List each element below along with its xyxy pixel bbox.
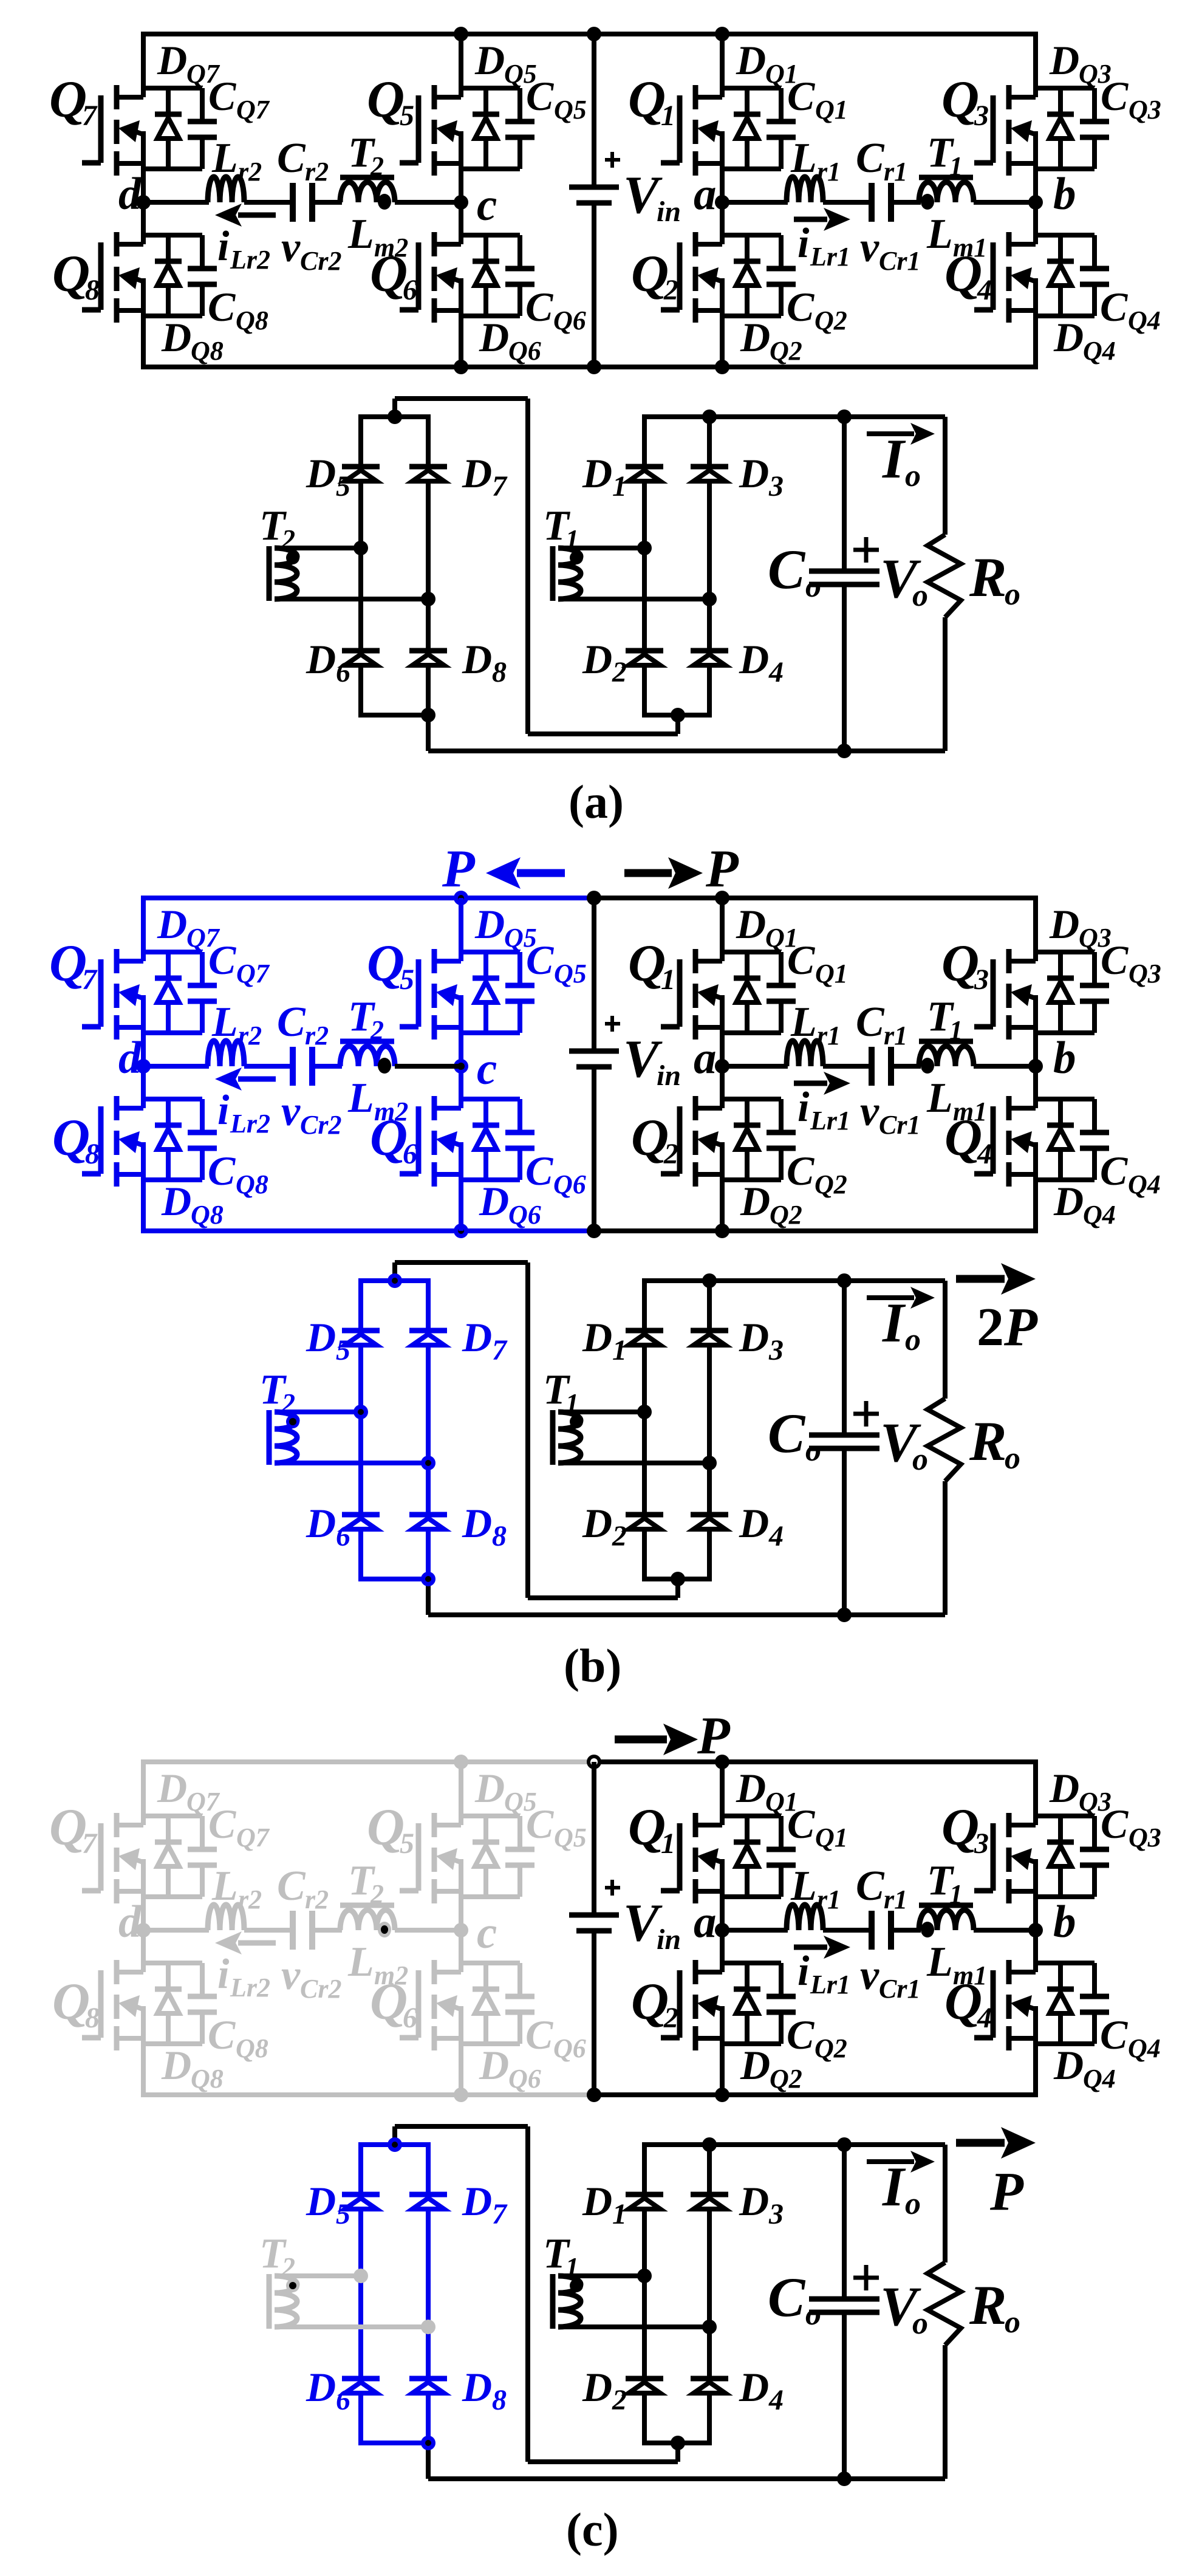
inductor L_r2: [208, 177, 244, 202]
svg-text:D: D: [462, 450, 492, 496]
junction: [837, 409, 852, 424]
wire node to Lr2: [143, 200, 209, 205]
wire: [459, 34, 463, 97]
wire: [143, 1030, 202, 1035]
node d: [136, 1923, 151, 1937]
body diode D_Q2: [745, 1099, 750, 1125]
wire: [891, 200, 921, 205]
svg-text:C: C: [208, 1801, 236, 1847]
wire: [1036, 1030, 1095, 1035]
capacitor C_Q6: [517, 1963, 522, 1994]
junction: [353, 1405, 368, 1419]
transformer T1 primary / magnetizing inductor L_m1: [919, 175, 973, 180]
junction: [837, 744, 852, 758]
node d: [136, 1059, 151, 1074]
rectifier diode D3: [691, 2192, 728, 2197]
wire: [141, 202, 146, 244]
svg-text:Q: Q: [628, 70, 666, 128]
svg-text:D: D: [739, 2178, 769, 2224]
node a: [715, 1923, 729, 1937]
MOSFET Q4: [1006, 1096, 1012, 1120]
wire: [143, 1814, 202, 1818]
svg-text:Q6: Q6: [508, 1200, 541, 1230]
wire: [459, 1930, 463, 1972]
junction: [388, 409, 402, 424]
wire: [459, 1066, 463, 1108]
junction: [671, 708, 685, 722]
MOSFET Q1: [693, 85, 698, 109]
right bridge legs: [642, 1281, 647, 1579]
junction: [702, 2320, 717, 2334]
wire: [141, 1762, 146, 1825]
wire: [1036, 166, 1095, 171]
svg-text:I: I: [882, 1292, 906, 1354]
svg-text:L: L: [790, 135, 817, 182]
svg-text:c: c: [477, 1908, 497, 1958]
wire: [720, 898, 725, 961]
svg-text:L: L: [211, 999, 238, 1046]
svg-text:1: 1: [661, 100, 675, 132]
capacitor C_Q3: [1092, 952, 1097, 983]
svg-text:L: L: [347, 1075, 374, 1122]
body diode D_Q5: [483, 952, 488, 978]
svg-text:P: P: [697, 1707, 731, 1766]
svg-text:D: D: [739, 450, 769, 496]
svg-text:o: o: [905, 2187, 921, 2221]
svg-text:v: v: [281, 1088, 301, 1135]
junction: [421, 2320, 435, 2334]
svg-text:2: 2: [612, 656, 627, 688]
svg-text:2: 2: [370, 1879, 384, 1909]
bottom rail (right half): [594, 2092, 1038, 2097]
junction: [587, 891, 601, 905]
svg-text:Q8: Q8: [236, 2033, 268, 2063]
junction: [454, 1755, 468, 1769]
top rail (right half): [594, 1759, 1038, 1764]
wire: [459, 202, 463, 244]
polarity dot: [286, 1415, 299, 1428]
body diode D_Q3: [1058, 88, 1063, 114]
bottom rail (right half): [594, 1228, 1038, 1233]
body diode D_Q7: [166, 952, 171, 978]
svg-text:m2: m2: [374, 233, 408, 262]
svg-text:5: 5: [336, 2198, 350, 2230]
wire Lm1 to node: [974, 1064, 1036, 1069]
polarity dot: [570, 2279, 583, 2292]
svg-text:6: 6: [336, 2384, 350, 2416]
transformer T2 secondary winding: [267, 1410, 272, 1465]
current arrow i_Lr1 (right): [794, 217, 827, 222]
svg-text:D: D: [462, 2364, 492, 2410]
svg-text:C: C: [526, 73, 554, 119]
svg-text:Q: Q: [631, 1972, 669, 2030]
svg-text:2: 2: [612, 1520, 627, 1552]
svg-text:o: o: [1005, 1441, 1020, 1476]
body diode D_Q1: [745, 952, 750, 978]
capacitor C_Q7: [200, 1816, 205, 1847]
MOSFET Q6: [432, 1960, 437, 1984]
svg-text:C: C: [768, 2266, 806, 2328]
rectifier diode D3: [691, 1328, 728, 1334]
svg-text:Q3: Q3: [1129, 1823, 1161, 1852]
inductor L_r1: [787, 1041, 823, 1066]
svg-text:D: D: [161, 1178, 191, 1224]
bottom rail (left half): [141, 365, 594, 369]
wire: [1036, 1894, 1095, 1899]
svg-text:4: 4: [977, 274, 992, 306]
wire: [722, 1177, 781, 1182]
svg-text:Q8: Q8: [236, 306, 268, 335]
wire Lm1 to node: [974, 1928, 1036, 1933]
wire: [312, 1928, 342, 1933]
svg-text:C: C: [768, 1402, 806, 1464]
MOSFET Q7: [114, 1813, 120, 1837]
rectifier diode D1: [626, 1328, 663, 1334]
svg-text:Q2: Q2: [814, 1170, 847, 1199]
svg-text:1: 1: [612, 470, 627, 502]
svg-text:Q6: Q6: [553, 306, 586, 335]
body diode D_Q2: [745, 1963, 750, 1989]
T2 secondary bottom lead: [275, 2324, 428, 2329]
transformer T2 primary / magnetizing inductor L_m2: [340, 175, 394, 180]
svg-text:D: D: [739, 1314, 769, 1360]
svg-text:7: 7: [82, 1828, 98, 1860]
svg-text:C: C: [208, 284, 236, 330]
T1 secondary top lead: [558, 2273, 644, 2278]
svg-text:o: o: [805, 2297, 821, 2332]
wire: [1036, 86, 1095, 91]
T1 secondary bottom lead: [558, 2324, 709, 2329]
wire: [461, 1177, 520, 1182]
svg-text:C: C: [787, 73, 815, 119]
svg-text:v: v: [281, 1952, 301, 1999]
transformer T1 secondary winding: [550, 2274, 556, 2329]
polarity dot: [921, 1922, 934, 1937]
body diode D_Q4: [1058, 1099, 1063, 1125]
svg-text:Q: Q: [52, 1108, 90, 1166]
current arrow i_Lr2 (left): [238, 213, 276, 218]
bottom rail (left half): [141, 2092, 594, 2097]
capacitor C_Q6: [517, 1099, 522, 1130]
capacitor C_Q8: [200, 235, 205, 266]
svg-text:a: a: [694, 1033, 717, 1083]
left bridge legs: [358, 2145, 363, 2443]
left bridge top bus: [358, 2142, 431, 2147]
svg-text:a: a: [694, 1897, 717, 1947]
svg-text:v: v: [860, 224, 879, 271]
svg-text:in: in: [657, 196, 681, 228]
inductor L_r2: [208, 1041, 244, 1066]
svg-text:D: D: [582, 636, 612, 682]
body diode D_Q1: [745, 1816, 750, 1842]
svg-text:5: 5: [336, 470, 350, 502]
svg-text:2P: 2P: [977, 1297, 1038, 1357]
svg-text:Lr1: Lr1: [810, 242, 850, 272]
svg-text:L: L: [211, 135, 238, 182]
capacitor C_Q2: [779, 1963, 784, 1994]
MOSFET Q3: [1006, 85, 1012, 109]
load resistor R_o: [943, 2145, 948, 2263]
svg-text:8: 8: [85, 1138, 100, 1170]
capacitor C_Q8: [200, 1099, 205, 1130]
series connection wire (bottom): [528, 2459, 678, 2464]
output return wire: [426, 715, 431, 751]
svg-text:D: D: [479, 1178, 509, 1224]
junction: [454, 27, 468, 41]
svg-text:R: R: [969, 1410, 1006, 1472]
capacitor C_Q3: [1092, 1816, 1097, 1847]
rectifier diode D6: [342, 1512, 380, 1518]
svg-text:Lr2: Lr2: [230, 1973, 270, 2002]
T2 secondary bottom lead: [275, 597, 428, 601]
current arrow i_Lr1 (right): [794, 1081, 827, 1086]
svg-text:P: P: [705, 840, 739, 899]
svg-text:Q: Q: [941, 934, 979, 992]
right bridge top bus: [642, 414, 945, 419]
wire: [720, 1762, 725, 1825]
polarity dot: [286, 551, 299, 564]
wire: [722, 166, 781, 171]
svg-text:Q3: Q3: [1129, 95, 1161, 125]
svg-text:C: C: [1100, 284, 1128, 330]
svg-text:L: L: [926, 211, 953, 258]
junction: [421, 592, 435, 606]
wire: [1033, 1930, 1038, 1972]
svg-text:C: C: [787, 1801, 815, 1847]
svg-text:Lr2: Lr2: [230, 245, 270, 275]
svg-text:Q: Q: [49, 1798, 87, 1856]
svg-text:D: D: [582, 1500, 612, 1546]
svg-text:Q: Q: [941, 70, 979, 128]
polarity dot: [570, 551, 583, 564]
svg-text:Q2: Q2: [770, 1200, 802, 1230]
body diode D_Q6: [483, 235, 488, 261]
junction: [637, 541, 652, 555]
wire: [143, 1097, 202, 1101]
svg-text:Q: Q: [367, 1798, 405, 1856]
wire: [459, 1762, 463, 1825]
wire: [461, 313, 520, 318]
junction: [421, 708, 435, 722]
svg-text:Q6: Q6: [553, 1170, 586, 1199]
svg-text:Q5: Q5: [554, 95, 587, 125]
right bridge bottom bus: [642, 1577, 712, 1581]
junction: [454, 891, 468, 905]
rectifier diode D8: [409, 2376, 447, 2382]
junction: [388, 1273, 402, 1288]
svg-text:Cr1: Cr1: [879, 1110, 920, 1140]
wire: [244, 200, 293, 205]
plus sign: [853, 2276, 879, 2280]
svg-text:Q: Q: [941, 1798, 979, 1856]
wire: [1033, 202, 1038, 244]
svg-text:Q3: Q3: [1129, 959, 1161, 988]
svg-text:C: C: [1101, 937, 1129, 983]
wire: [244, 1928, 293, 1933]
svg-text:D: D: [306, 1500, 336, 1546]
svg-text:Q6: Q6: [508, 336, 541, 366]
wire: [244, 1064, 293, 1069]
svg-text:Q1: Q1: [815, 95, 848, 125]
svg-text:D: D: [474, 37, 505, 83]
junction: [702, 592, 717, 606]
rectifier diode D6: [342, 648, 380, 654]
svg-text:i: i: [217, 1951, 230, 1998]
svg-text:8: 8: [85, 2002, 100, 2034]
svg-text:C: C: [277, 135, 306, 182]
transformer T1 secondary winding: [550, 1410, 556, 1465]
junction: [587, 1224, 601, 1238]
top rail (left half): [141, 32, 594, 36]
body diode D_Q6: [483, 1099, 488, 1125]
wire: [461, 1030, 520, 1035]
wire: [720, 34, 725, 97]
node b: [1028, 195, 1043, 210]
capacitor C_Q6: [517, 235, 522, 266]
inductor L_r1: [787, 1905, 823, 1930]
svg-text:2: 2: [663, 274, 678, 306]
wire: [461, 2041, 520, 2046]
wire: [1036, 233, 1095, 238]
svg-text:Q6: Q6: [508, 2064, 541, 2094]
rectifier diode D5: [342, 1328, 380, 1334]
bottom rail (left half): [141, 1228, 594, 1233]
wire: [722, 1961, 781, 1965]
body diode D_Q3: [1058, 952, 1063, 978]
node c: [454, 195, 468, 210]
svg-text:1: 1: [661, 1828, 675, 1860]
wire node to Lr1: [722, 1928, 788, 1933]
svg-text:1: 1: [949, 1015, 963, 1045]
wire: [823, 200, 872, 205]
svg-text:Q5: Q5: [554, 1823, 587, 1852]
wire: [141, 1066, 146, 1108]
plus sign: [605, 1886, 620, 1889]
inductor L_r2: [208, 1905, 244, 1930]
svg-text:Q: Q: [631, 1108, 669, 1166]
junction: [702, 409, 717, 424]
svg-text:a: a: [694, 169, 717, 219]
DC source V_in: [592, 1762, 596, 1913]
capacitor C_r1: [869, 1911, 875, 1950]
plus sign: [605, 1022, 620, 1026]
MOSFET Q5: [432, 85, 437, 109]
junction: [837, 1273, 852, 1288]
svg-text:D: D: [1053, 314, 1084, 360]
load resistor R_o: [943, 417, 948, 535]
svg-text:r2: r2: [238, 157, 262, 187]
svg-text:5: 5: [400, 964, 414, 996]
wire: [461, 86, 520, 91]
svg-text:Cr1: Cr1: [879, 1974, 920, 2004]
junction: [454, 1224, 468, 1238]
svg-text:r1: r1: [817, 1885, 841, 1914]
svg-text:Q: Q: [367, 934, 405, 992]
wire: [143, 233, 202, 238]
svg-text:(c): (c): [566, 2503, 619, 2556]
rectifier diode D8: [409, 1512, 447, 1518]
svg-text:Q: Q: [628, 934, 666, 992]
svg-text:o: o: [1005, 2305, 1020, 2340]
svg-text:2: 2: [612, 2384, 627, 2416]
top rail (left half): [141, 1759, 594, 1764]
plus sign: [605, 158, 620, 162]
svg-text:D: D: [474, 1765, 505, 1811]
rectifier diode D5: [342, 464, 380, 470]
svg-text:C: C: [525, 1148, 553, 1194]
svg-text:5: 5: [400, 100, 414, 132]
wire: [141, 34, 146, 97]
node c: [454, 1923, 468, 1937]
svg-text:I: I: [882, 428, 906, 490]
junction: [837, 2137, 852, 2152]
svg-text:Q4: Q4: [1128, 2033, 1161, 2063]
DC source V_in: [592, 34, 596, 185]
svg-text:L: L: [926, 1075, 953, 1122]
rectifier diode D5: [342, 2192, 380, 2197]
MOSFET Q1: [693, 1813, 698, 1837]
output power arrow P: [956, 2139, 1005, 2147]
svg-text:Q8: Q8: [191, 2064, 224, 2094]
wire node to Lr2: [143, 1064, 209, 1069]
svg-text:c: c: [477, 180, 497, 230]
svg-text:Q1: Q1: [815, 959, 848, 988]
svg-text:D: D: [306, 2364, 336, 2410]
body diode D_Q7: [166, 88, 171, 114]
rectifier diode D7: [409, 1328, 447, 1334]
body diode D_Q1: [745, 88, 750, 114]
body diode D_Q6: [483, 1963, 488, 1989]
transformer T2 primary / magnetizing inductor L_m2: [340, 1903, 394, 1908]
rectifier diode D7: [409, 464, 447, 470]
wire: [461, 1894, 520, 1899]
svg-text:2: 2: [663, 2002, 678, 2034]
wire: [722, 1097, 781, 1101]
svg-text:Q2: Q2: [814, 2033, 847, 2063]
svg-text:D: D: [582, 2364, 612, 2410]
output current arrow I_o: [867, 431, 914, 436]
left bridge bottom bus: [358, 2441, 431, 2445]
T1 secondary top lead: [558, 546, 644, 550]
wire: [141, 1930, 146, 1972]
wire: [722, 950, 781, 954]
svg-text:D: D: [479, 2042, 509, 2088]
svg-text:4: 4: [977, 2002, 992, 2034]
left bridge bottom bus: [358, 713, 431, 718]
junction: [421, 2436, 435, 2450]
MOSFET Q5: [432, 1813, 437, 1837]
node a: [715, 195, 729, 210]
MOSFET Q6: [432, 1096, 437, 1120]
svg-text:I: I: [882, 2156, 906, 2218]
svg-text:4: 4: [977, 1138, 992, 1170]
junction: [715, 27, 729, 41]
output capacitor C_o: [842, 2145, 847, 2297]
capacitor C_Q4: [1092, 235, 1097, 266]
svg-text:r2: r2: [305, 157, 329, 187]
bottom rail (right half): [594, 365, 1038, 369]
T1 secondary top lead: [558, 1410, 644, 1414]
output current arrow I_o: [867, 2159, 914, 2164]
series connection wire (top): [392, 1262, 397, 1281]
junction: [715, 2088, 729, 2102]
series connection wire (bottom): [528, 1595, 678, 1600]
svg-text:v: v: [860, 1952, 879, 1999]
right bridge bottom bus: [642, 713, 712, 718]
wire: [141, 898, 146, 961]
svg-text:4: 4: [768, 1520, 784, 1552]
svg-text:o: o: [905, 459, 921, 493]
